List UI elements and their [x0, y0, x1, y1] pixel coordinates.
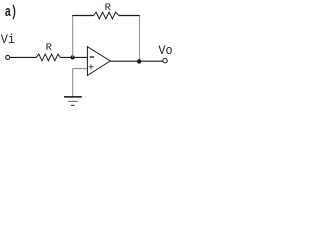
svg-text:R: R — [105, 2, 112, 14]
svg-text:Vi: Vi — [1, 32, 15, 47]
svg-text:R: R — [46, 42, 53, 54]
svg-text:a): a) — [5, 4, 17, 21]
svg-text:Vo: Vo — [158, 43, 172, 58]
